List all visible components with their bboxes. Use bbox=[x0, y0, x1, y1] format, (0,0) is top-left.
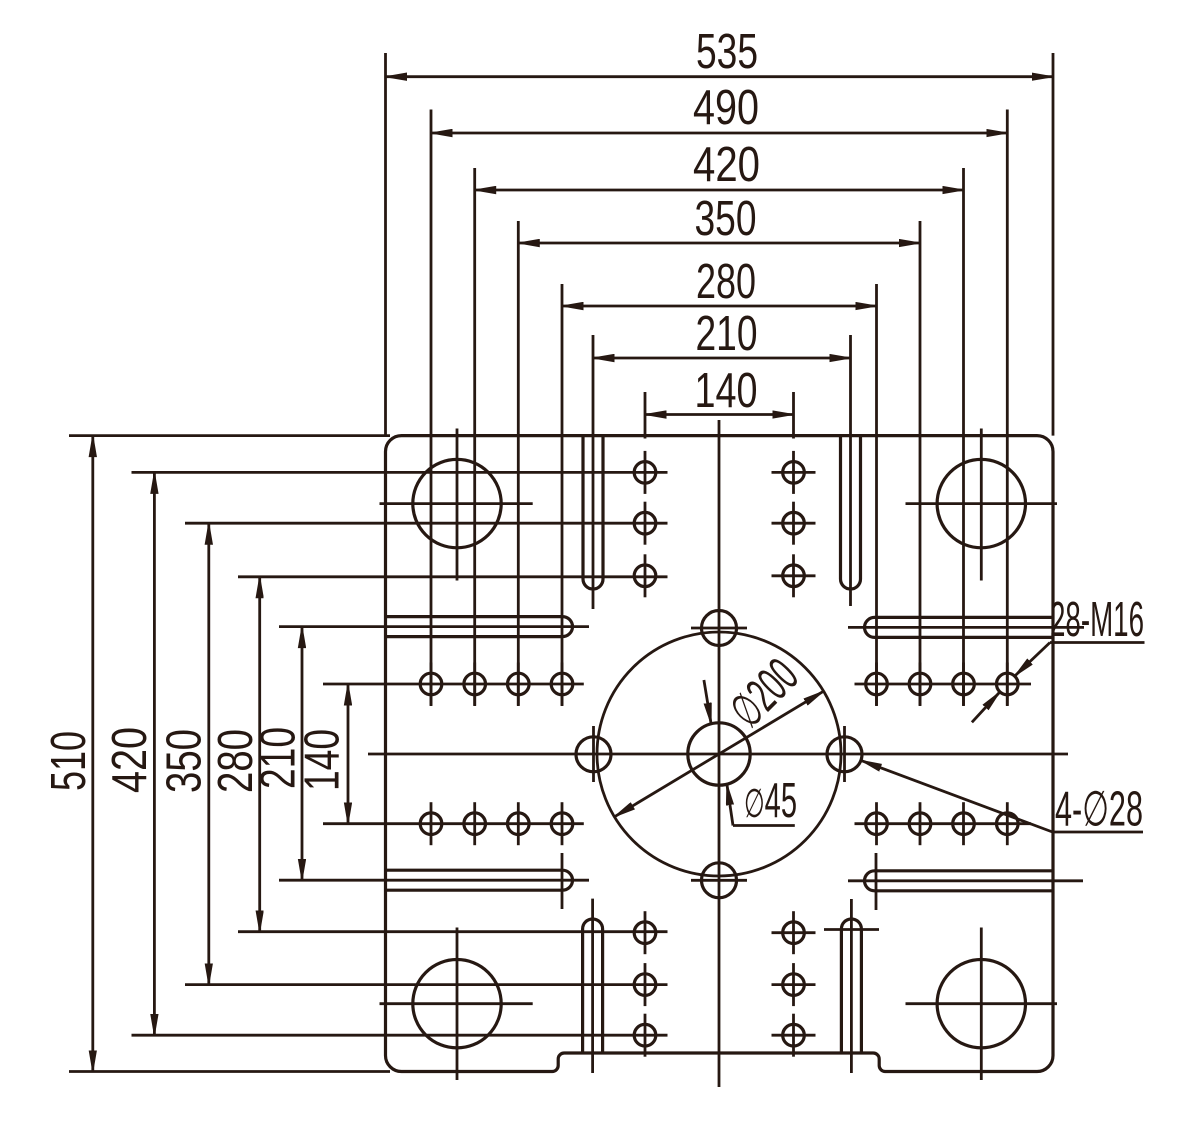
M16 hole (1007,823) bbox=[997, 813, 1019, 835]
svg-text:510: 510 bbox=[42, 731, 96, 791]
slot bottom right bbox=[841, 919, 861, 1053]
slot left upper bbox=[386, 617, 573, 637]
platen plate outline with bottom notch bbox=[386, 436, 1054, 1072]
horizontal dimension 420 bbox=[475, 189, 964, 192]
vertical dimension 420 bbox=[153, 472, 156, 1035]
M16 hole (876,684) bbox=[866, 673, 888, 695]
dimension phi200 diameter line bbox=[614, 691, 823, 817]
tie-bar hole top-left bbox=[413, 459, 501, 547]
M16 hole (793,575) bbox=[783, 565, 805, 587]
svg-text:420: 420 bbox=[693, 138, 760, 192]
slot left lower bbox=[386, 870, 573, 890]
M16 hole (562,684) bbox=[551, 673, 573, 695]
svg-text:4-∅28: 4-∅28 bbox=[1055, 783, 1143, 837]
svg-text:210: 210 bbox=[696, 307, 758, 361]
svg-text:350: 350 bbox=[695, 192, 757, 246]
horizontal dimension 350 bbox=[518, 242, 920, 245]
tie-bar hole bottom-left bbox=[413, 960, 501, 1048]
M16 hole (645,523) bbox=[634, 512, 656, 534]
M16 hole (793,472) bbox=[783, 462, 805, 484]
horizontal dimension 280 bbox=[562, 305, 877, 308]
M16 hole (562,823) bbox=[551, 813, 573, 835]
svg-text:280: 280 bbox=[696, 255, 756, 309]
slot top left bbox=[583, 436, 603, 589]
svg-text:350: 350 bbox=[158, 729, 212, 793]
ejector hole west on bolt circle bbox=[576, 737, 611, 772]
slot bottom left bbox=[583, 919, 603, 1053]
vertical dimension 210 bbox=[301, 627, 304, 881]
vertical center line bbox=[718, 420, 721, 1087]
M16 hole (793,523) bbox=[783, 512, 805, 534]
svg-text:140: 140 bbox=[695, 364, 758, 418]
ejector hole south on bolt circle bbox=[702, 863, 737, 898]
ejector hole east on bolt circle bbox=[827, 737, 862, 772]
M16 hole (431,684) bbox=[420, 673, 442, 695]
vertical dimension 140 bbox=[347, 684, 350, 824]
M16 hole (474,684) bbox=[464, 673, 486, 695]
tie-bar hole bottom-right bbox=[937, 960, 1025, 1048]
M16 hole (645,575) bbox=[634, 565, 656, 587]
M16 hole (920,684) bbox=[909, 673, 931, 695]
M16 hole (793,1035) bbox=[783, 1024, 805, 1046]
horizontal dimension 140 bbox=[645, 413, 794, 416]
svg-text:420: 420 bbox=[103, 727, 157, 793]
svg-text:490: 490 bbox=[693, 81, 759, 135]
M16 hole (431,823) bbox=[420, 813, 442, 835]
center hole phi45 bbox=[688, 723, 750, 785]
horizontal dimension 535 bbox=[386, 75, 1054, 78]
tie-bar hole top-right bbox=[937, 459, 1025, 547]
M16 hole (963,823) bbox=[953, 813, 975, 835]
vertical dimension 510 bbox=[91, 436, 94, 1072]
M16 hole (876,823) bbox=[866, 813, 888, 835]
M16 hole (793,984) bbox=[783, 974, 805, 996]
M16 hole (963,684) bbox=[953, 673, 975, 695]
row line right strip y823 bbox=[855, 822, 1032, 825]
slot top right bbox=[841, 436, 861, 589]
M16 hole (1007,684) bbox=[997, 673, 1019, 695]
M16 hole (518,823) bbox=[508, 813, 530, 835]
M16 hole (474,823) bbox=[464, 813, 486, 835]
svg-text:∅45: ∅45 bbox=[744, 774, 797, 828]
horizontal center line bbox=[368, 753, 1068, 756]
M16 hole (645,932) bbox=[634, 922, 656, 944]
svg-text:140: 140 bbox=[296, 729, 350, 791]
M16 hole (793,932) bbox=[783, 922, 805, 944]
dimension phi45 with leader bbox=[704, 680, 711, 724]
row line right strip y684 bbox=[855, 683, 1032, 686]
ejector hole north on bolt circle bbox=[702, 611, 737, 646]
svg-text:28-M16: 28-M16 bbox=[1050, 593, 1144, 647]
vertical dimension 350 bbox=[207, 523, 210, 984]
svg-text:535: 535 bbox=[696, 25, 758, 79]
horizontal dimension 210 bbox=[593, 357, 851, 360]
vertical dimension 280 bbox=[258, 577, 261, 932]
horizontal dimension 490 bbox=[431, 132, 1007, 135]
M16 hole (518,684) bbox=[508, 673, 530, 695]
M16 hole (645,1035) bbox=[634, 1024, 656, 1046]
M16 hole (920,823) bbox=[909, 813, 931, 835]
M16 hole (645,472) bbox=[634, 462, 656, 484]
slot right upper bbox=[865, 617, 1053, 637]
M16 hole (645,984) bbox=[634, 974, 656, 996]
slot right lower bbox=[865, 871, 1053, 891]
bolt circle phi200 bbox=[597, 632, 841, 876]
